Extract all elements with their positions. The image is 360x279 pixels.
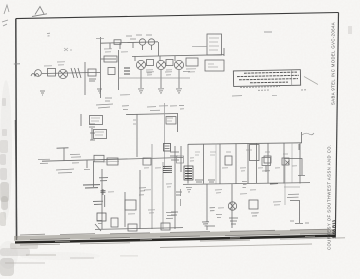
paper mottle [0,80,100,269]
faint vertical [284,159,286,205]
capacitor box [264,156,271,163]
input transistor circle [35,70,42,77]
wire to module [101,58,117,60]
border frame top [16,13,339,19]
foot bar 2 [295,223,303,225]
wire drop to IF bus [158,42,160,56]
small boxes bottom row [97,213,106,221]
wire vline x125 [124,192,126,227]
pencil scribble top-left corner [2,5,9,26]
wire vline x102 [101,169,103,229]
component box on wire 2 [143,158,151,165]
border frame left [15,19,18,240]
label cluster x216 [216,214,222,217]
wire comb v4 [235,143,237,183]
component box b4 [128,224,137,231]
resistor box [108,68,115,75]
wire vline x175 [174,146,176,229]
transformer T1 laminations [124,68,130,74]
vline transistor [231,184,233,228]
ground symbol right [97,89,102,93]
resistor box [114,40,121,45]
symbols on bus [195,180,203,182]
wire y44 [101,42,159,43]
dark component box x164 [164,144,171,152]
bottom bus y183.5 [183,183,310,185]
svg-text:1108 B13: 1108 B13 [331,219,336,238]
capacitor plate ticks [90,133,95,140]
wire y157 [42,158,183,162]
label [56,169,74,173]
L shape 2 [290,201,300,224]
transistor circle B [148,39,154,45]
tiny label below note [272,94,277,96]
wire vline x152 [151,144,153,229]
extra marks mid-left block [139,156,192,206]
bottom border faint lower echo [160,244,312,248]
wire drop x92 [91,128,93,140]
antenna input coil [31,74,39,77]
T stub above wire [63,148,65,161]
box left lower [94,130,107,139]
label cluster x166 [166,212,176,218]
bottom band lower scratches [20,238,345,245]
emitter stub A [142,45,144,50]
text two lines [287,194,299,197]
module box small [104,56,117,62]
wire comb v3b faint [215,144,217,184]
bottom border smudge band [14,229,335,241]
transistor circle A [139,39,145,45]
under-box text [240,87,306,91]
wire vline x163 [162,162,164,229]
label below box [251,213,258,216]
box [249,200,258,209]
diagonal tick [95,224,101,231]
bracket shape [207,226,215,230]
boxes on y158 wire [107,158,118,165]
scattered small value-label smudges [44,49,297,214]
transistor Q2 [136,60,145,69]
pencil x mark [64,48,72,51]
label text left [38,159,50,163]
label smudges [105,98,112,101]
vline x164 [164,103,166,168]
label rows x99 [99,178,108,181]
lower faint wire [118,77,190,79]
band breaks [55,236,315,241]
stub below bus [298,144,300,150]
verticals [93,161,95,187]
label cluster x139 [139,188,146,195]
cluster upper [262,158,271,166]
module box upper [207,34,222,55]
box right [166,117,176,125]
bottom border main line [15,236,335,243]
ground symbol [202,222,209,226]
wire vline x140 [139,170,141,229]
coil stack dark [163,166,172,172]
vertical ticks [134,56,136,61]
ground symbol below Q5 [229,218,238,224]
wire comb v8b faint [291,143,293,183]
wire comb v5 [247,143,249,183]
component boxes in comb [225,156,232,165]
tall component box [250,145,260,161]
foot bar [298,175,305,177]
label fragment near top left [47,33,50,36]
comb verticals [187,144,189,184]
component box b2 [111,218,118,227]
vline x137 [136,114,138,157]
pencil diagonal [304,77,318,85]
cap stub [80,114,82,126]
wire comb v8 [283,143,285,183]
label beside wire [210,208,216,211]
capacitor C2 vertical [84,62,86,95]
bus wire y56 [132,55,224,57]
bottom band scratches [20,229,334,239]
capacitor C plates [89,124,95,127]
value label under IF can [89,79,96,81]
chain vertical drops [109,43,111,49]
L shape 1 [284,159,302,176]
label rows x97 [97,220,102,223]
resistor boxes between [147,60,154,66]
stub below cluster [265,166,267,173]
right column hatches [170,152,179,160]
module box right [205,60,224,71]
bottom wire [95,228,183,230]
note box outline [233,70,300,87]
stub below wire [86,161,88,169]
node stub [100,37,102,98]
wire comb v9 [299,143,301,184]
wire comb v7 [267,143,269,183]
resistor R1 box [48,69,56,77]
vline x181 [180,146,182,172]
emitter stub B [151,45,153,50]
wire comb v3 [219,144,221,184]
border frame left rough overlay [15,120,16,238]
svg-text:SABA 9TEL INC MODEL GVC-2064A: SABA 9TEL INC MODEL GVC-2064A [330,22,335,105]
transistor Q3 [156,60,165,69]
wire with label [104,195,106,207]
value labels along chain [146,71,190,75]
B+ label row [83,185,100,188]
label dashes [126,35,152,39]
vline with box [206,184,208,222]
wire input chain [42,72,100,73]
broken wire x180 [180,189,182,206]
border tick mark [14,63,20,65]
transformer dark cluster [184,166,193,180]
small dashes above comb boxes [195,152,200,155]
wire to module [192,45,207,47]
component box b5 [161,223,170,230]
component box on wire [94,155,104,162]
component box with x [282,158,289,165]
coil core [118,50,120,90]
T bar [57,147,69,149]
wire drop x177 [177,114,179,133]
wire comb v2 [203,144,205,184]
coil hatches [71,68,81,78]
capacitor below [102,189,104,195]
wire comb v6 [256,143,258,183]
tiny label [264,31,272,33]
ground marks [40,91,45,95]
label [270,183,278,186]
small marks [290,220,294,222]
pencil check mark above border [32,7,47,17]
component box b3 [125,200,136,210]
transistor Q4 [174,60,183,69]
bus end stub [223,48,225,56]
note box partition [291,71,293,86]
border frame right [335,13,338,238]
small box x176 [177,156,184,163]
IF can box [88,69,96,76]
ground hatch below transformer [186,187,192,192]
box left upper [90,116,103,125]
top bus y143.5 [188,143,302,145]
up stub [301,132,303,143]
wire y114 [126,114,178,115]
transistor Q1 [58,69,67,78]
label rows x93 [93,201,103,204]
